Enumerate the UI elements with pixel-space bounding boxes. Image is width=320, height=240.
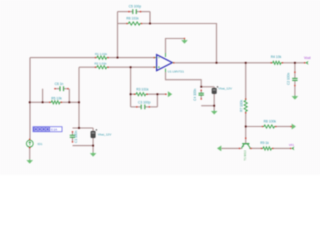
svg-text:C1 100n: C1 100n: [74, 131, 78, 143]
svg-text:R8 100k: R8 100k: [264, 119, 277, 123]
svg-text:VF1: VF1: [289, 143, 295, 147]
svg-text:ID1: ID1: [38, 142, 43, 146]
svg-text:0.1A: 0.1A: [51, 128, 57, 132]
svg-text:R1 1.01k: R1 1.01k: [95, 52, 108, 56]
svg-text:Vbat_12V: Vbat_12V: [98, 132, 113, 136]
svg-text:R4 10k: R4 10k: [271, 55, 282, 59]
svg-text:R6 101k: R6 101k: [126, 16, 139, 20]
svg-text:T1 9013: T1 9013: [243, 150, 247, 161]
svg-text:Vbat_12V: Vbat_12V: [218, 87, 233, 91]
svg-text:R9 1k: R9 1k: [260, 141, 269, 145]
svg-text:C3 100p: C3 100p: [138, 100, 151, 104]
svg-text:R5 10k: R5 10k: [51, 97, 62, 101]
svg-text:R2 1.01k: R2 1.01k: [94, 61, 107, 65]
svg-text:C5 100p: C5 100p: [129, 5, 142, 9]
svg-text:R3 101k: R3 101k: [136, 87, 149, 91]
svg-text:C6 1n: C6 1n: [55, 82, 64, 86]
svg-text:Vout: Vout: [304, 56, 311, 60]
svg-text:C4 100n: C4 100n: [193, 88, 197, 100]
svg-text:U1 LMV721: U1 LMV721: [168, 70, 185, 74]
svg-text:C2 100n: C2 100n: [286, 73, 290, 85]
svg-text:R7 100k: R7 100k: [239, 100, 243, 112]
